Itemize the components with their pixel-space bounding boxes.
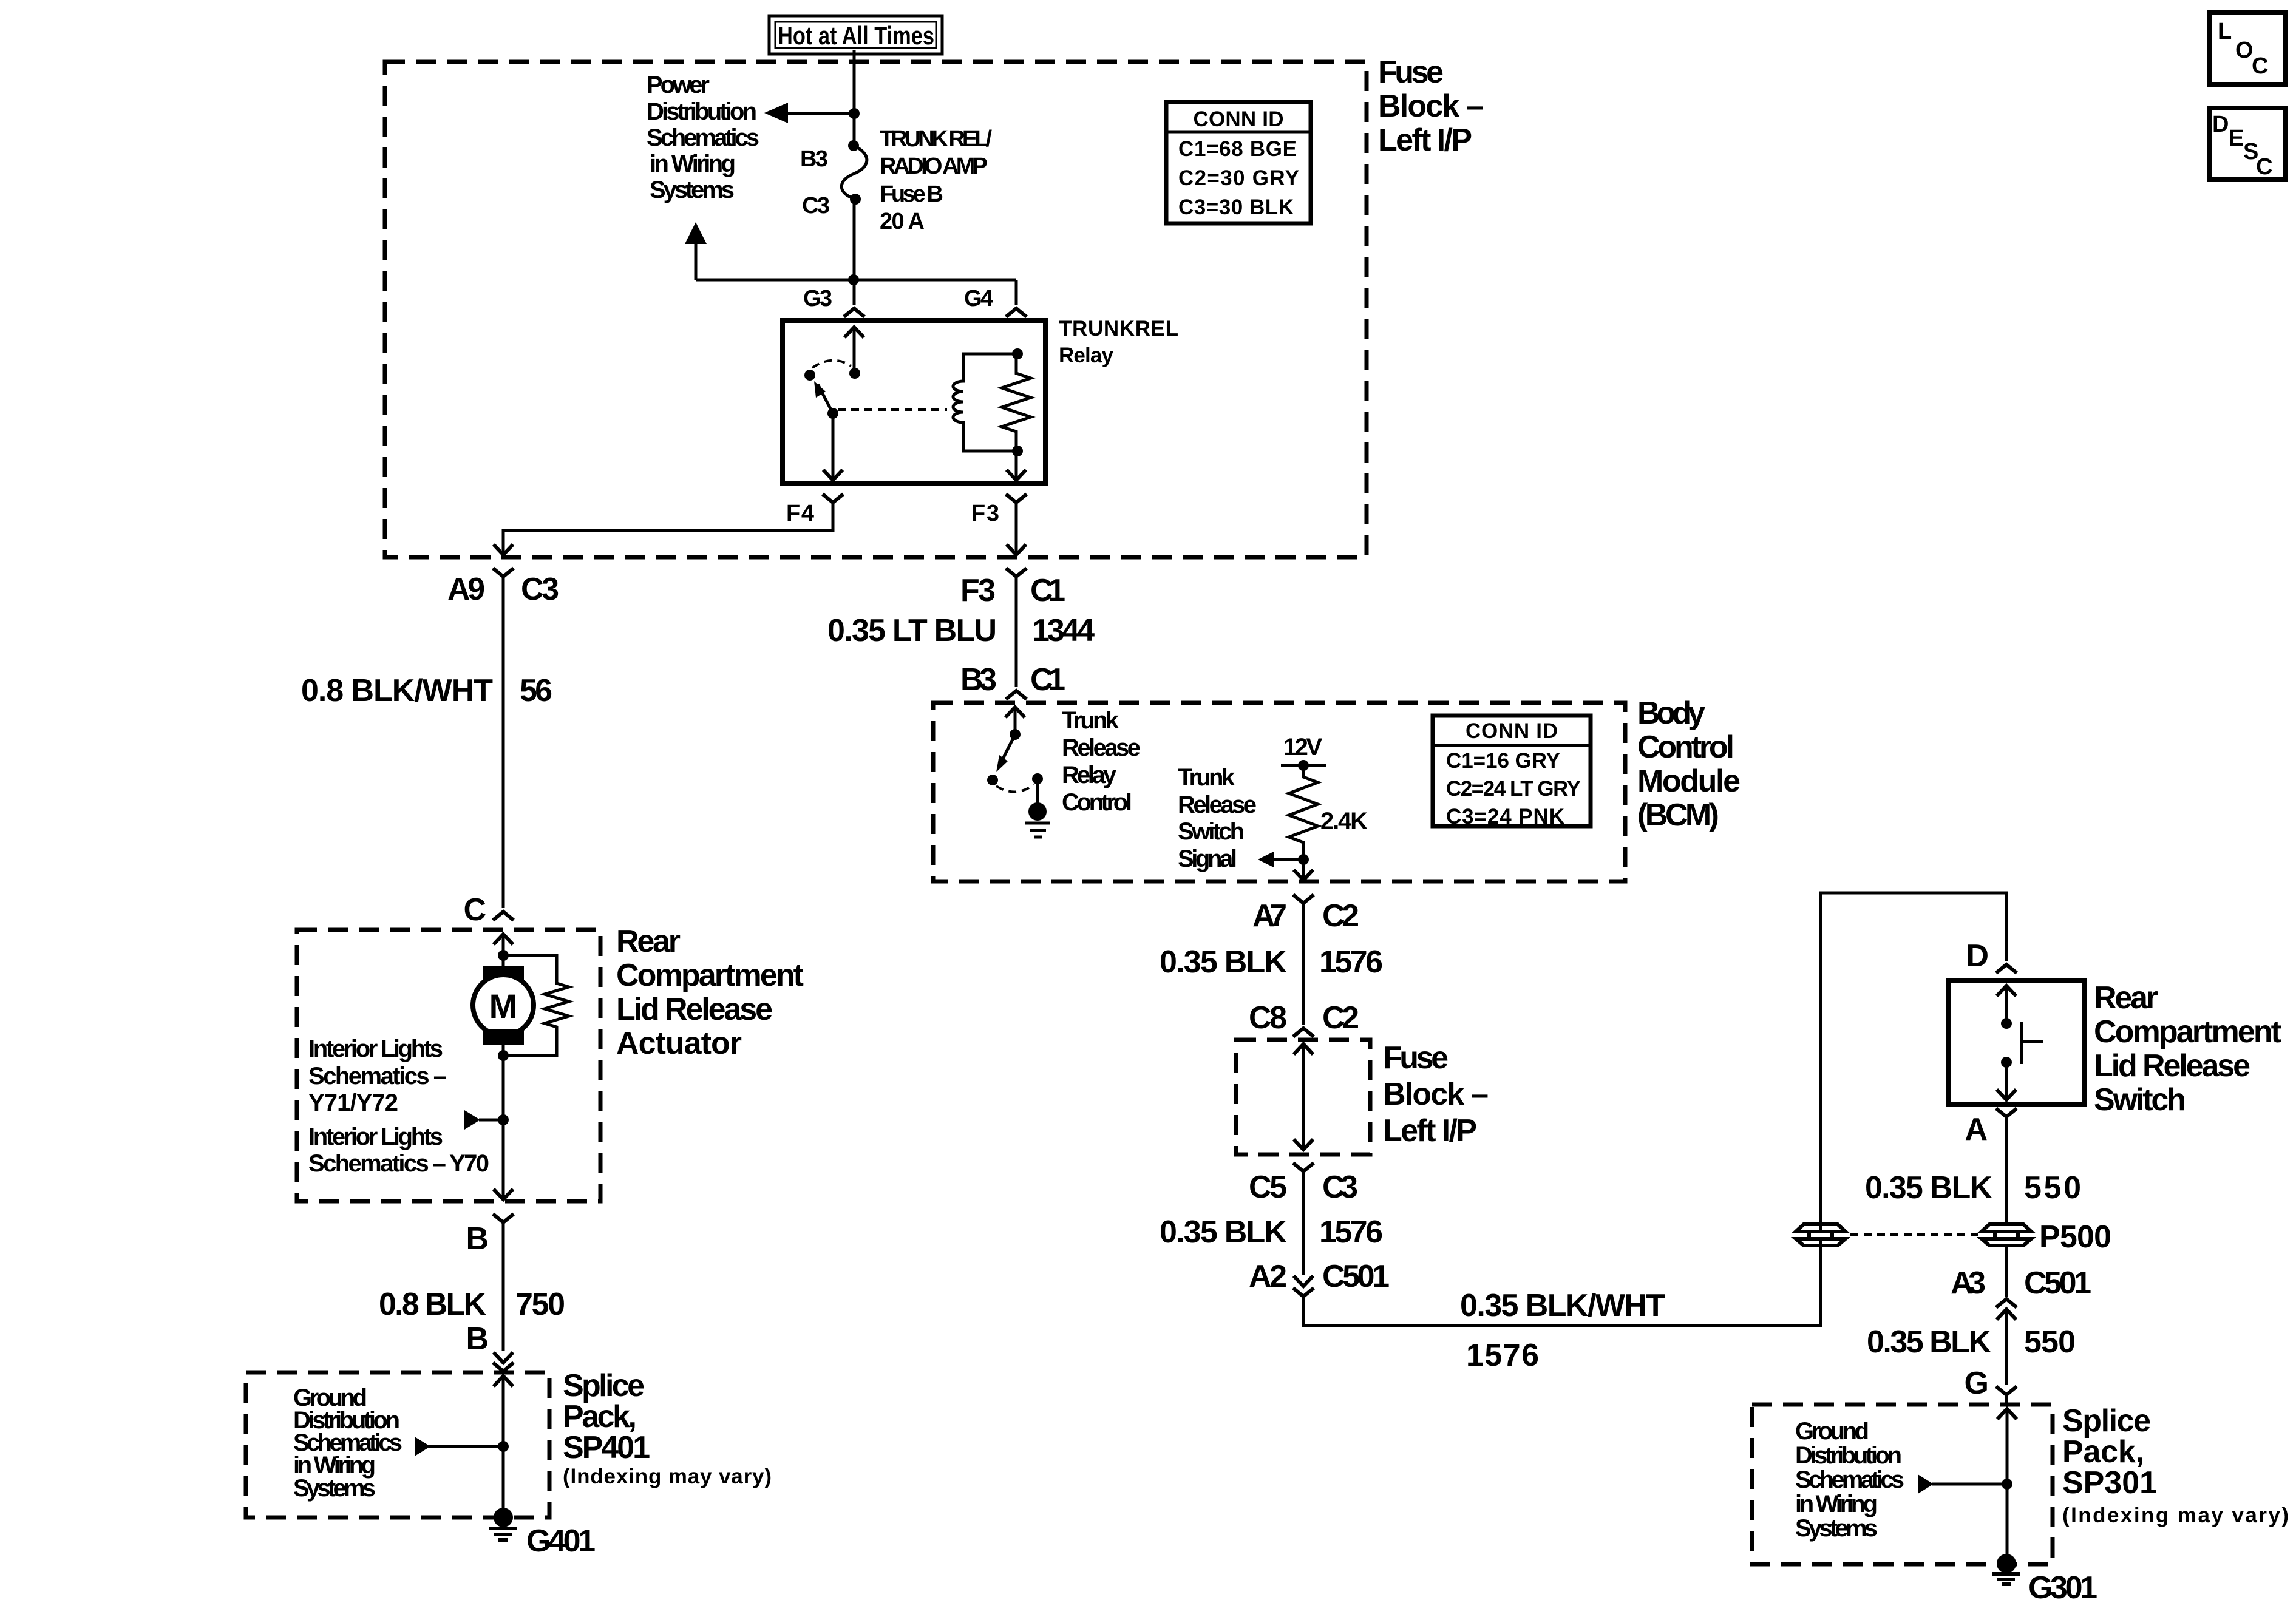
wire 56 BLK/WHT: [301, 577, 552, 908]
connector C5 C3: [1249, 1163, 1358, 1205]
svg-text:Y71/Y72: Y71/Y72: [308, 1090, 398, 1116]
relay coil link dashed: [838, 408, 947, 411]
BCM entry arrow: [1005, 707, 1025, 734]
wire 550 BLK lower: [1867, 1309, 2076, 1385]
connector A9 C3: [447, 568, 559, 607]
motor M1: [473, 955, 534, 1056]
svg-text:B3: B3: [960, 662, 997, 697]
svg-text:L: L: [2218, 19, 2232, 44]
fuse2 pass wire: [1294, 1044, 1313, 1150]
connector B3 C1: [960, 662, 1065, 699]
svg-text:Compartment: Compartment: [616, 958, 804, 993]
CONN ID table (BCM): [1433, 716, 1591, 829]
node motor bottom: [498, 1050, 509, 1061]
svg-text:20 A: 20 A: [880, 209, 925, 234]
svg-text:M: M: [489, 987, 518, 1025]
svg-text:Lid Release: Lid Release: [616, 992, 773, 1027]
Splice Pack SP401 label: [563, 1368, 772, 1488]
svg-text:C2: C2: [1322, 898, 1359, 934]
svg-text:RADIO AMP: RADIO AMP: [880, 154, 988, 179]
wire 750 BLK: [379, 1222, 565, 1357]
actuator dashed box: [297, 930, 600, 1201]
svg-text:0.35 BLK: 0.35 BLK: [1867, 1324, 1991, 1360]
connector F3: [971, 494, 1027, 526]
ground G401: [489, 1508, 596, 1559]
svg-text:C2: C2: [1322, 1000, 1359, 1036]
connector A: [1965, 1108, 2017, 1147]
TRUNKREL Relay label: [1059, 317, 1178, 367]
connector C8 C2: [1249, 1000, 1359, 1037]
svg-text:Systems: Systems: [1795, 1515, 1878, 1542]
svg-text:(Indexing may vary): (Indexing may vary): [563, 1465, 772, 1488]
connector B actuator: [466, 1214, 514, 1256]
Ground Distribution notes SP301: [1795, 1418, 1904, 1542]
svg-text:G4: G4: [964, 286, 993, 311]
BCM exit arrow: [1294, 859, 1313, 880]
svg-text:F3: F3: [960, 573, 996, 608]
wire 1576 BLK lower: [1160, 1171, 1383, 1275]
svg-text:C2=24 LT GRY: C2=24 LT GRY: [1446, 777, 1581, 801]
wire 550 BLK upper: [1865, 1117, 2081, 1222]
svg-text:SP301: SP301: [2062, 1465, 2157, 1500]
svg-text:Power: Power: [647, 72, 710, 98]
svg-text:550: 550: [2024, 1170, 2081, 1205]
svg-text:A: A: [1965, 1112, 1988, 1147]
wire A2 to switch loop: [1303, 893, 2006, 1373]
DESC box: [2209, 108, 2285, 180]
relay resistor: [1002, 354, 1031, 451]
connector D: [1966, 938, 2017, 974]
svg-text:F3: F3: [971, 501, 999, 526]
relay travel arc: [812, 361, 851, 368]
svg-text:(Indexing may vary): (Indexing may vary): [2062, 1503, 2289, 1527]
wire 1576 BLK upper: [1160, 903, 1383, 1025]
Rear Compartment Lid Release Actuator label: [616, 924, 804, 1061]
CONN ID table (fuse block): [1166, 102, 1311, 223]
svg-text:Block –: Block –: [1378, 89, 1484, 124]
svg-text:D: D: [1966, 938, 1989, 974]
svg-text:Actuator: Actuator: [616, 1026, 742, 1061]
svg-text:0.35 LT BLU: 0.35 LT BLU: [827, 613, 997, 648]
svg-text:Trunk: Trunk: [1178, 764, 1235, 791]
svg-text:0.35 BLK: 0.35 BLK: [1160, 1215, 1287, 1250]
svg-text:Pack,: Pack,: [2062, 1434, 2144, 1470]
wire split horizontal: [696, 279, 1016, 282]
Fuse Block - Left I/P dashed box: [385, 62, 1367, 557]
wire G to SP301: [2005, 1395, 2008, 1405]
svg-text:Block –: Block –: [1383, 1077, 1489, 1112]
connector F4: [786, 494, 843, 526]
svg-text:56: 56: [520, 673, 552, 708]
svg-text:C2=30 GRY: C2=30 GRY: [1178, 166, 1299, 190]
svg-text:Splice: Splice: [563, 1368, 645, 1403]
svg-text:Trunk: Trunk: [1062, 707, 1119, 734]
bulkhead P500 right: [1982, 1219, 2111, 1255]
connector A3 C501: [1951, 1266, 2091, 1320]
wire power distribution pointer: [764, 103, 854, 123]
wire G3 drop: [853, 280, 856, 305]
bulkhead P500 left: [1796, 1224, 1846, 1246]
svg-text:Schematics: Schematics: [1795, 1466, 1904, 1493]
relay F3 pin arrow: [1007, 451, 1026, 480]
svg-text:Control: Control: [1637, 730, 1734, 765]
svg-text:Distribution: Distribution: [1795, 1442, 1902, 1469]
svg-text:Relay: Relay: [1059, 344, 1114, 367]
svg-text:550: 550: [2024, 1324, 2076, 1360]
relay TRUNKREL box: [783, 320, 1045, 484]
svg-text:0.35 BLK/WHT: 0.35 BLK/WHT: [1460, 1288, 1665, 1323]
interior lights pointer: [464, 1110, 509, 1130]
fuse block 2 dashed box: [1236, 1040, 1370, 1154]
Ground Distribution notes SP401: [293, 1385, 402, 1502]
connector G: [1965, 1366, 2017, 1401]
svg-text:SP401: SP401: [563, 1430, 650, 1465]
svg-text:Interior Lights: Interior Lights: [308, 1036, 443, 1062]
svg-text:C3=30 BLK: C3=30 BLK: [1178, 195, 1294, 219]
svg-text:C3: C3: [521, 572, 559, 607]
svg-text:Left I/P: Left I/P: [1383, 1113, 1477, 1148]
svg-text:O: O: [2235, 38, 2254, 63]
wire motor to exit: [494, 1056, 513, 1199]
svg-text:G301: G301: [2028, 1570, 2097, 1605]
svg-text:C1: C1: [1030, 573, 1065, 608]
svg-text:C: C: [463, 892, 486, 927]
Fuse Block - Left I/P label: [1378, 55, 1484, 158]
node split junction: [848, 274, 859, 285]
Rear Compartment Lid Release Switch box: [1948, 981, 2085, 1105]
fuse B3/C3 fuse B 20A: [800, 126, 992, 234]
svg-text:Schematics –: Schematics –: [308, 1063, 447, 1090]
svg-text:Signal: Signal: [1178, 846, 1237, 872]
svg-text:G3: G3: [803, 286, 832, 311]
svg-text:Rear: Rear: [616, 924, 681, 959]
Body Control Module label: [1637, 696, 1741, 833]
svg-text:C1=16 GRY: C1=16 GRY: [1446, 749, 1560, 773]
svg-text:750: 750: [515, 1287, 565, 1322]
relay arm to F4 wire: [823, 413, 843, 480]
connector B splice pack: [493, 1352, 514, 1371]
SP301 pointer: [1918, 1474, 2012, 1494]
LOC box: [2209, 13, 2285, 84]
svg-text:CONN ID: CONN ID: [1194, 107, 1284, 131]
BCM relay control switch: [987, 729, 1043, 792]
svg-text:Relay: Relay: [1062, 762, 1117, 788]
ground G301: [1992, 1554, 2097, 1605]
svg-text:C3: C3: [1322, 1170, 1358, 1205]
svg-text:C8: C8: [1249, 1000, 1287, 1036]
Splice Pack SP401 dashed box: [246, 1372, 549, 1517]
svg-text:Systems: Systems: [650, 177, 735, 203]
svg-text:Fuse: Fuse: [1383, 1040, 1449, 1076]
svg-text:Rear: Rear: [2094, 980, 2158, 1015]
connector A7 C2: [1252, 895, 1359, 934]
svg-text:C501: C501: [1322, 1259, 1390, 1294]
svg-text:B3: B3: [800, 146, 828, 172]
Hot at All Times box: [769, 16, 942, 54]
svg-text:G401: G401: [526, 1524, 596, 1559]
relay coil: [953, 354, 1017, 451]
Trunk Release Relay Control label: [1062, 707, 1141, 816]
svg-text:D: D: [2212, 112, 2229, 137]
svg-text:A2: A2: [1249, 1259, 1287, 1294]
svg-text:Compartment: Compartment: [2094, 1014, 2281, 1049]
svg-text:CONN ID: CONN ID: [1466, 719, 1558, 743]
connector G4: [964, 286, 1027, 317]
12V rail: [1281, 734, 1326, 771]
actuator shunt resistor: [503, 955, 569, 1056]
svg-text:B: B: [466, 1321, 489, 1357]
svg-text:Body: Body: [1637, 696, 1705, 731]
node coil top: [1012, 348, 1023, 359]
svg-text:A3: A3: [1951, 1266, 1986, 1301]
wire 1344 LT BLU: [827, 577, 1095, 687]
svg-text:C501: C501: [2024, 1266, 2091, 1301]
svg-text:B: B: [466, 1221, 489, 1256]
svg-text:2.4K: 2.4K: [1320, 808, 1368, 835]
svg-text:Release: Release: [1178, 792, 1257, 818]
relay G3 pin arrow: [844, 327, 864, 373]
node junction hot: [849, 108, 860, 119]
wire F4 to A9: [494, 503, 833, 555]
svg-text:Switch: Switch: [2094, 1082, 2186, 1117]
svg-text:Hot at All Times: Hot at All Times: [778, 21, 934, 50]
connector A2 C501: [1249, 1259, 1390, 1297]
svg-text:Schematics: Schematics: [647, 124, 759, 151]
svg-text:A9: A9: [447, 572, 485, 607]
signal pointer: [1258, 852, 1309, 867]
connector C actuator: [463, 892, 514, 927]
svg-text:Ground: Ground: [1795, 1418, 1869, 1445]
svg-text:Distribution: Distribution: [647, 98, 757, 125]
wire power distribution up pointer: [685, 222, 707, 280]
svg-text:P500: P500: [2039, 1219, 2111, 1255]
P500 dashed link: [1850, 1233, 1978, 1236]
svg-text:1576: 1576: [1319, 944, 1383, 980]
svg-text:C1: C1: [1030, 662, 1065, 697]
svg-text:Interior Lights: Interior Lights: [308, 1124, 443, 1150]
svg-text:C: C: [2252, 53, 2268, 79]
Splice Pack SP301 label: [2062, 1403, 2289, 1527]
wire hot feed: [853, 50, 856, 146]
svg-text:E: E: [2229, 126, 2244, 151]
Fuse Block - Left I/P label 2: [1383, 1040, 1489, 1148]
svg-text:Systems: Systems: [293, 1475, 376, 1502]
Body Control Module dashed box: [933, 703, 1625, 881]
wire G4 drop: [1015, 280, 1018, 305]
svg-text:Pack,: Pack,: [563, 1399, 637, 1434]
svg-text:1344: 1344: [1032, 613, 1095, 648]
svg-text:C3=24 PNK: C3=24 PNK: [1446, 805, 1564, 829]
svg-text:Fuse B: Fuse B: [880, 181, 943, 207]
svg-text:12V: 12V: [1283, 734, 1322, 761]
node coil bottom: [1012, 446, 1023, 456]
svg-text:1576: 1576: [1466, 1338, 1539, 1373]
SP401 entry arrow: [494, 1376, 513, 1517]
svg-text:1576: 1576: [1319, 1215, 1383, 1250]
svg-text:TRUNKREL: TRUNKREL: [1059, 317, 1178, 341]
svg-text:Module: Module: [1637, 764, 1741, 799]
relay fixed contact: [849, 368, 860, 379]
BCM internal ground: [1025, 779, 1050, 837]
svg-text:in Wiring: in Wiring: [650, 151, 736, 177]
actuator entry arrow: [494, 934, 513, 955]
svg-text:F4: F4: [786, 501, 814, 526]
svg-text:0.8 BLK: 0.8 BLK: [379, 1287, 486, 1322]
svg-text:Splice: Splice: [2062, 1403, 2151, 1439]
svg-text:Left I/P: Left I/P: [1378, 123, 1472, 158]
resistor 2.4K: [1289, 765, 1368, 859]
svg-text:Lid Release: Lid Release: [2094, 1048, 2250, 1083]
svg-text:TRUNK REL/: TRUNK REL/: [880, 126, 992, 152]
Splice Pack SP301 dashed box: [1752, 1405, 2053, 1564]
svg-text:C3: C3: [802, 193, 830, 219]
wire F3 to fuse block edge: [1007, 503, 1026, 555]
relay switch arm: [814, 381, 838, 419]
svg-text:Schematics – Y70: Schematics – Y70: [308, 1150, 489, 1177]
svg-text:C5: C5: [1249, 1170, 1287, 1205]
svg-text:A7: A7: [1252, 898, 1287, 934]
svg-text:Switch: Switch: [1178, 818, 1245, 845]
svg-text:G: G: [1965, 1366, 1989, 1401]
SP401 pointer: [415, 1437, 509, 1456]
connector G3: [803, 286, 864, 317]
svg-text:0.35 BLK: 0.35 BLK: [1865, 1170, 1992, 1205]
svg-text:(BCM): (BCM): [1637, 798, 1719, 833]
Interior Lights notes: [308, 1036, 489, 1177]
connector F3 C1: [960, 568, 1065, 608]
Trunk Release Switch Signal label: [1178, 764, 1257, 872]
svg-text:Control: Control: [1062, 789, 1132, 816]
Rear Compartment Lid Release Switch label: [2094, 980, 2281, 1117]
switch internals: [1997, 986, 2043, 1100]
SP301 entry arrow: [1997, 1409, 2017, 1564]
relay pivot contact: [804, 370, 815, 381]
svg-text:C1=68 BGE: C1=68 BGE: [1178, 137, 1297, 161]
svg-text:Fuse: Fuse: [1378, 55, 1444, 90]
node motor top: [498, 950, 509, 961]
svg-text:in Wiring: in Wiring: [1795, 1491, 1878, 1517]
svg-text:0.35 BLK: 0.35 BLK: [1160, 944, 1287, 980]
Power Distribution note: [647, 72, 759, 203]
wire P500 to A3: [2005, 1245, 2008, 1297]
wire fuse to split: [853, 199, 856, 280]
svg-text:0.8 BLK/WHT: 0.8 BLK/WHT: [301, 673, 493, 708]
svg-text:C: C: [2256, 154, 2272, 180]
svg-text:Release: Release: [1062, 734, 1141, 761]
